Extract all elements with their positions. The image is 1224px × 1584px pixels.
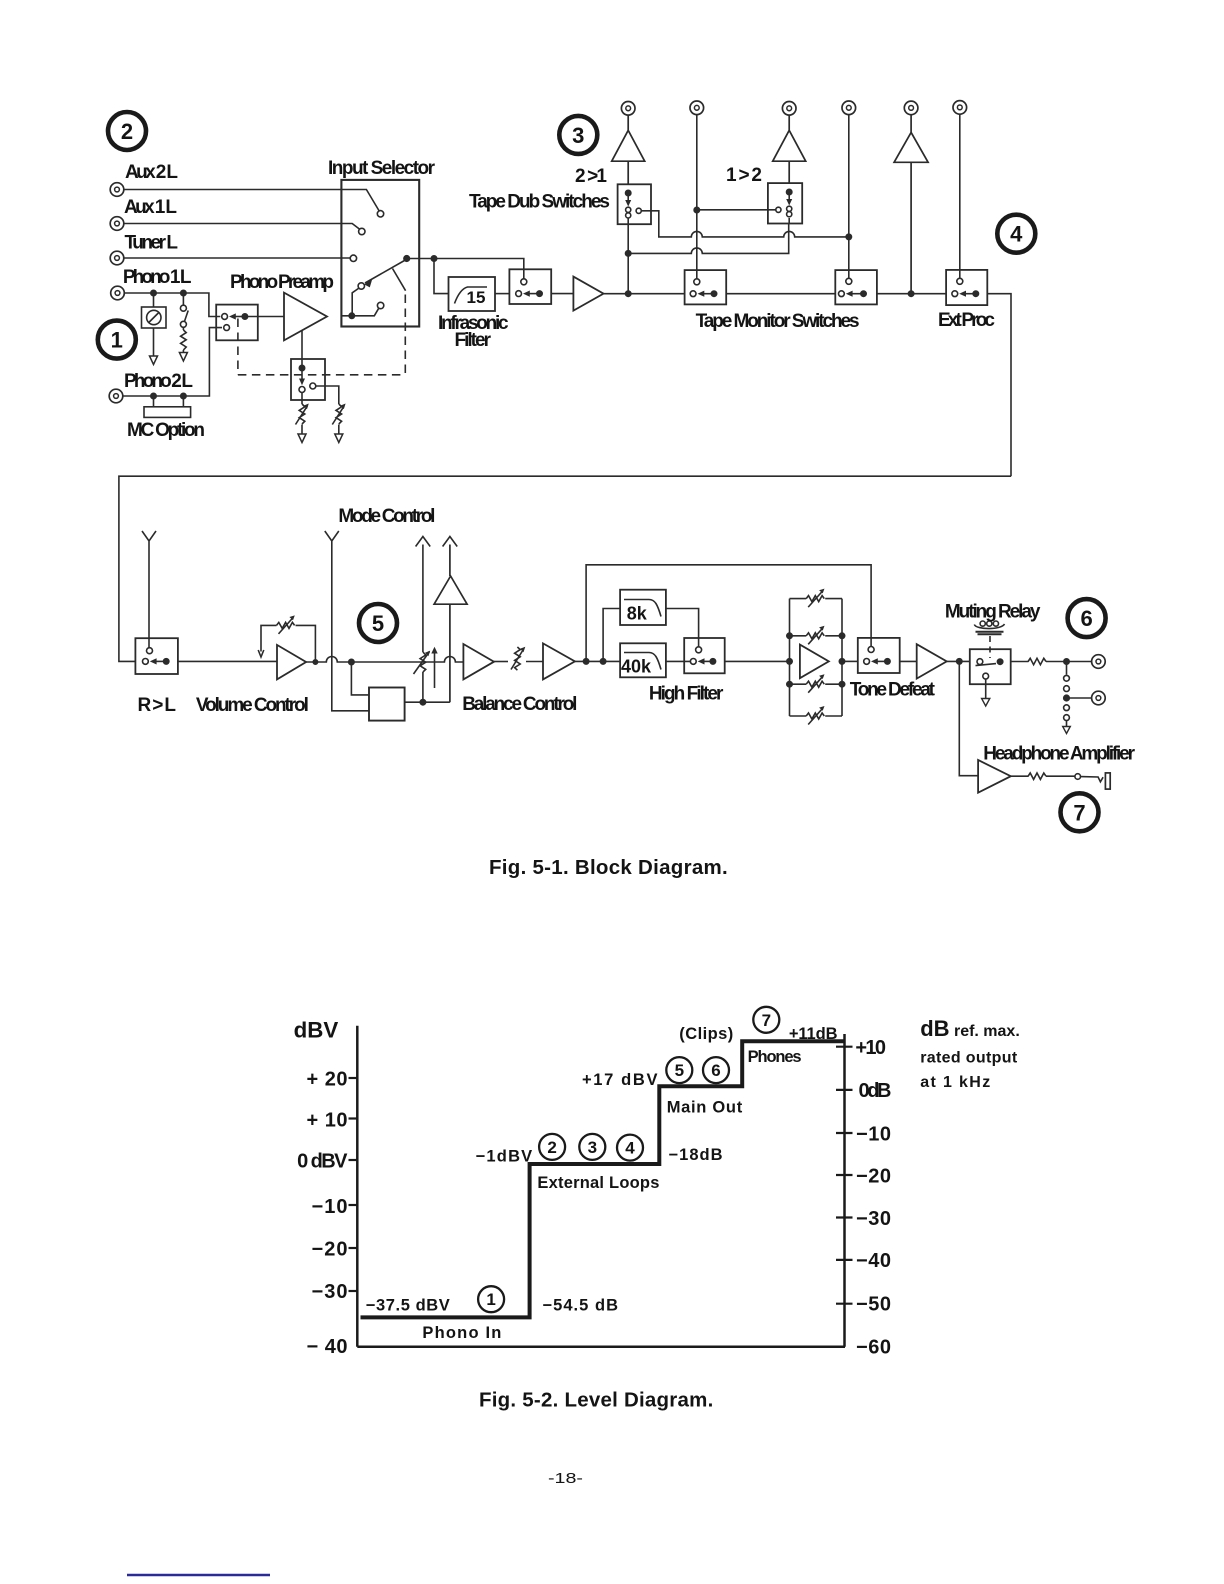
- svg-text:−18dB: −18dB: [669, 1146, 723, 1164]
- svg-text:4: 4: [1010, 222, 1023, 247]
- svg-text:Input Selector: Input Selector: [328, 158, 436, 179]
- svg-text:−30: −30: [856, 1208, 891, 1230]
- svg-text:External Loops: External Loops: [537, 1174, 659, 1192]
- svg-text:Tape Monitor Switches: Tape Monitor Switches: [696, 311, 860, 332]
- svg-text:Muting Relay: Muting Relay: [945, 602, 1041, 623]
- svg-text:8k: 8k: [627, 604, 648, 624]
- svg-text:7: 7: [762, 1011, 771, 1030]
- svg-text:5: 5: [675, 1061, 684, 1080]
- svg-text:Fig. 5-2. Level Diagram.: Fig. 5-2. Level Diagram.: [479, 1389, 713, 1412]
- svg-text:−10: −10: [312, 1196, 348, 1218]
- svg-text:Phono In: Phono In: [422, 1324, 501, 1342]
- svg-text:+10: +10: [855, 1037, 886, 1059]
- svg-text:Tape Dub Switches: Tape Dub Switches: [469, 192, 610, 213]
- svg-text:6: 6: [711, 1061, 720, 1080]
- svg-text:MC Option: MC Option: [127, 420, 205, 441]
- svg-text:1: 1: [111, 328, 123, 353]
- svg-text:Phono 2 L: Phono 2 L: [124, 371, 193, 392]
- svg-text:−1dBV: −1dBV: [476, 1148, 533, 1166]
- svg-text:R > L: R > L: [138, 695, 177, 716]
- svg-text:−54.5 dB: −54.5 dB: [543, 1297, 619, 1315]
- svg-text:+17 dBV: +17 dBV: [582, 1071, 658, 1089]
- svg-text:− 40: − 40: [307, 1336, 348, 1358]
- svg-text:dBV: dBV: [294, 1018, 339, 1043]
- svg-text:1: 1: [486, 1290, 495, 1309]
- svg-text:5: 5: [372, 611, 384, 636]
- svg-text:−40: −40: [856, 1250, 891, 1272]
- svg-text:Tuner L: Tuner L: [125, 233, 179, 254]
- svg-text:Fig. 5-1. Block Diagram.: Fig. 5-1. Block Diagram.: [489, 856, 728, 879]
- svg-text:Phono 1 L: Phono 1 L: [123, 267, 192, 288]
- svg-text:−37.5 dBV: −37.5 dBV: [366, 1297, 450, 1315]
- svg-text:Mode Control: Mode Control: [338, 506, 435, 527]
- svg-text:6: 6: [1080, 606, 1092, 631]
- svg-text:1 > 2: 1 > 2: [726, 165, 762, 186]
- svg-text:at 1 kHz: at 1 kHz: [920, 1074, 990, 1091]
- svg-text:Aux 1 L: Aux 1 L: [124, 197, 177, 218]
- svg-text:Phones: Phones: [748, 1048, 802, 1066]
- svg-text:3: 3: [572, 123, 584, 148]
- svg-text:−30: −30: [312, 1281, 348, 1303]
- svg-text:2: 2: [121, 119, 133, 144]
- svg-text:+ 10: + 10: [307, 1110, 348, 1132]
- svg-text:3: 3: [588, 1138, 597, 1157]
- svg-text:40k: 40k: [621, 657, 652, 677]
- svg-text:−50: −50: [856, 1294, 891, 1316]
- svg-text:15: 15: [467, 288, 486, 307]
- svg-text:Balance Control: Balance Control: [462, 694, 577, 715]
- svg-text:−10: −10: [856, 1124, 891, 1146]
- svg-text:Filter: Filter: [455, 330, 492, 351]
- svg-text:Volume Control: Volume Control: [196, 695, 309, 716]
- svg-text:7: 7: [1073, 800, 1085, 825]
- svg-text:Phono Preamp: Phono Preamp: [230, 272, 334, 293]
- svg-text:rated output: rated output: [920, 1050, 1018, 1067]
- svg-text:dB ref. max.: dB ref. max.: [920, 1016, 1020, 1041]
- svg-text:+11dB: +11dB: [789, 1025, 838, 1043]
- svg-text:0 dBV: 0 dBV: [297, 1151, 348, 1173]
- svg-text:2: 2: [547, 1138, 556, 1157]
- svg-text:Ext Proc: Ext Proc: [938, 310, 995, 331]
- svg-text:Headphone Amplifier: Headphone Amplifier: [983, 744, 1135, 765]
- svg-text:Aux 2 L: Aux 2 L: [125, 162, 178, 183]
- svg-text:+ 20: + 20: [307, 1069, 348, 1091]
- svg-text:−20: −20: [856, 1166, 891, 1188]
- svg-text:4: 4: [625, 1139, 635, 1158]
- svg-text:−60: −60: [856, 1336, 891, 1358]
- svg-text:−20: −20: [312, 1239, 348, 1261]
- svg-text:High Filter: High Filter: [649, 684, 724, 705]
- svg-text:Main Out: Main Out: [667, 1099, 743, 1117]
- svg-text:Tone Defeat: Tone Defeat: [850, 680, 936, 701]
- svg-text:(Clips): (Clips): [679, 1025, 733, 1043]
- svg-text:2 >1: 2 >1: [575, 166, 607, 187]
- svg-text:0dB: 0dB: [859, 1080, 892, 1102]
- svg-text:-18-: -18-: [548, 1470, 583, 1487]
